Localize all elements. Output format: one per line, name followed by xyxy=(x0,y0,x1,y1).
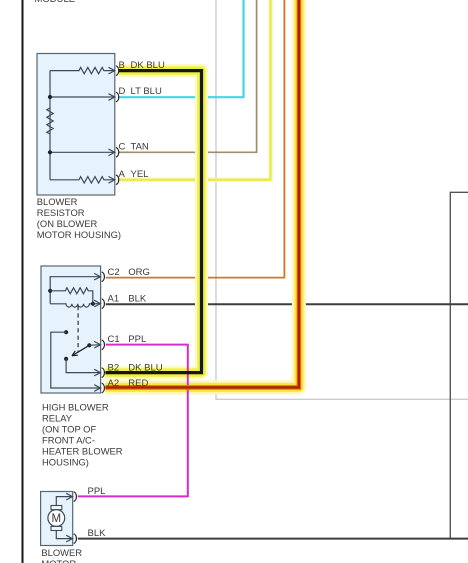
wire: relay A1 row xyxy=(93,303,100,305)
blower motor box xyxy=(41,492,73,546)
wire: A2 rail from upper dot down xyxy=(51,332,101,388)
connector bracket pin B2 xyxy=(102,368,105,378)
pin PPL arrowhead xyxy=(66,493,72,500)
pin C2 arrowhead xyxy=(94,273,100,280)
svg-text:A1: A1 xyxy=(108,294,120,305)
switch arm with arrowhead xyxy=(72,345,89,356)
pin C1 arrowhead xyxy=(94,341,100,348)
svg-text:RED: RED xyxy=(128,378,148,389)
svg-text:M: M xyxy=(52,513,62,525)
wire: motor top lead xyxy=(56,497,72,506)
svg-text:(ON TOP OF: (ON TOP OF xyxy=(42,424,96,435)
svg-text:B: B xyxy=(119,60,125,71)
wire: light gray guide line from top down and right xyxy=(216,0,468,399)
pin C arrowhead xyxy=(109,149,115,156)
svg-text:C: C xyxy=(119,142,126,153)
pin A2 arrowhead xyxy=(94,385,100,392)
node: junction dot at D xyxy=(48,95,52,99)
wire BLK from relay A1 xyxy=(106,303,468,305)
wire: resistor terminal C row xyxy=(50,151,115,153)
pin B arrowhead xyxy=(109,67,115,74)
connector bracket pin D xyxy=(116,92,119,102)
svg-text:(ON BLOWER: (ON BLOWER xyxy=(37,218,98,229)
connector bracket pin BLK xyxy=(74,534,77,544)
pin B2 arrowhead xyxy=(94,369,100,376)
connector bracket pin A1 xyxy=(102,299,105,309)
wire BLK from motor to right edge xyxy=(78,538,468,540)
node: switch pivot dot xyxy=(64,357,68,361)
svg-text:A: A xyxy=(119,169,126,180)
svg-text:FRONT A/C-: FRONT A/C- xyxy=(42,435,95,446)
connector bracket pin A xyxy=(116,175,119,185)
resistor element R (vertical on bus) xyxy=(47,108,53,134)
svg-text:MOTOR HOUSING): MOTOR HOUSING) xyxy=(37,229,121,240)
svg-text:B2: B2 xyxy=(108,362,120,373)
pin A1 arrowhead xyxy=(94,300,100,307)
wire TAN from resistor C xyxy=(119,0,257,152)
wire RED highlight halo xyxy=(105,0,299,387)
wire: pivot to B2 xyxy=(66,359,100,373)
svg-text:BLK: BLK xyxy=(88,528,107,539)
svg-text:HIGH BLOWER: HIGH BLOWER xyxy=(42,402,109,413)
svg-text:BLK: BLK xyxy=(128,294,147,305)
node: C1 contact dot xyxy=(87,343,91,347)
svg-text:PPL: PPL xyxy=(128,334,146,345)
svg-text:HEATER BLOWER: HEATER BLOWER xyxy=(42,446,123,457)
wire: relay C2 row to coil left rail xyxy=(50,277,100,304)
resistor element R (terminal A row) xyxy=(50,177,115,183)
motor M1 brush cap bottom xyxy=(51,526,62,530)
svg-text:TAN: TAN xyxy=(131,142,149,153)
svg-text:MODULE: MODULE xyxy=(35,0,76,5)
wire: dashed actuation link xyxy=(77,306,79,352)
svg-text:MOTOR: MOTOR xyxy=(41,558,76,563)
svg-text:HOUSING): HOUSING) xyxy=(42,456,89,467)
wire: motor bottom lead xyxy=(56,531,72,539)
blower resistor box xyxy=(37,54,115,196)
node: junction dot at C xyxy=(48,150,52,154)
svg-text:LT BLU: LT BLU xyxy=(131,86,162,97)
connector bracket pin C2 xyxy=(102,272,105,282)
pin A arrowhead xyxy=(109,177,115,184)
svg-text:PPL: PPL xyxy=(88,486,106,497)
svg-text:ORG: ORG xyxy=(128,267,150,278)
svg-text:C2: C2 xyxy=(108,267,120,278)
connector bracket pin A2 xyxy=(102,383,105,393)
svg-text:DK BLU: DK BLU xyxy=(128,362,162,373)
svg-text:DK BLU: DK BLU xyxy=(131,60,165,71)
connector bracket pin PPL xyxy=(74,492,77,502)
node: fixed contact dot (upper) xyxy=(64,330,68,334)
pin D arrowhead xyxy=(109,94,115,101)
svg-text:YEL: YEL xyxy=(131,169,149,180)
inductor element (relay coil) xyxy=(50,304,93,307)
svg-text:C1: C1 xyxy=(108,334,120,345)
wire RED core from top to relay A2 xyxy=(105,0,299,387)
wire: resistor terminal D row xyxy=(50,96,115,98)
svg-text:D: D xyxy=(119,86,126,97)
svg-text:RESISTOR: RESISTOR xyxy=(37,207,85,218)
node: coil junction dot left xyxy=(48,289,52,293)
wire: left module border vertical black line xyxy=(22,0,24,563)
motor M1 body circle xyxy=(48,510,65,527)
node: right-side component box outline (partially visible) xyxy=(450,192,468,538)
svg-text:A2: A2 xyxy=(108,378,120,389)
svg-text:BLOWER: BLOWER xyxy=(37,196,78,207)
motor M1 brush cap top xyxy=(51,506,62,510)
connector bracket pin C1 xyxy=(102,340,105,350)
svg-text:RELAY: RELAY xyxy=(42,413,73,424)
connector bracket pin C xyxy=(116,148,119,158)
svg-text:BLOWER: BLOWER xyxy=(41,547,82,558)
wire YEL from resistor A xyxy=(119,0,271,180)
wire DK BLU core from resistor B to relay B2 xyxy=(105,71,201,373)
high blower relay box xyxy=(41,266,101,393)
connector bracket pin B xyxy=(116,66,119,76)
resistor element R (terminal B row) xyxy=(50,67,115,73)
resistor element (relay coil suppressor) xyxy=(50,288,93,304)
node: coil junction dot right xyxy=(91,302,95,306)
pin BLK arrowhead xyxy=(66,535,72,542)
wire: C1 contact stub xyxy=(89,344,100,347)
wire: resistor internal bus vertical xyxy=(49,71,51,180)
wire ORG from relay C2 xyxy=(106,0,285,278)
wire PPL from relay C1 to motor xyxy=(78,345,188,497)
wire LT BLU from resistor D xyxy=(119,0,244,97)
wire DK BLU highlight halo xyxy=(105,71,201,373)
